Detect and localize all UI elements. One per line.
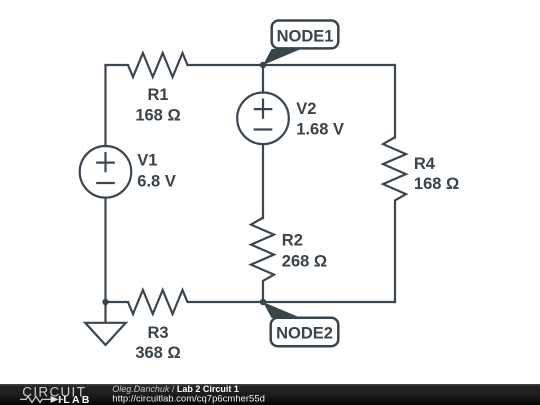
label V1 value [137,152,176,191]
svg-text:368 Ω: 368 Ω [135,344,180,362]
wire V1 bottom lead [104,198,106,302]
node NODE2 flag [263,302,338,346]
footer bar [0,384,540,405]
svg-text:V1: V1 [137,152,157,170]
resistor R2 [251,218,274,281]
svg-text:LAB: LAB [63,394,91,405]
svg-text:R3: R3 [147,324,168,342]
wire top-left horizontal lead [106,64,129,66]
node dot at ground junction [102,299,108,305]
label R3 value [135,324,180,362]
wire left vertical V1 top lead [104,65,106,146]
svg-text:NODE2: NODE2 [276,325,333,343]
svg-text:1.68 V: 1.68 V [296,121,344,139]
logo resistor squiggle [20,396,51,402]
label R4 value [414,155,459,193]
voltage source V2 [237,93,289,145]
wire node1 to V2 top [262,65,264,93]
wire top horizontal from R1 to right corner [188,64,396,66]
svg-text:R2: R2 [282,232,303,250]
svg-text:168 Ω: 168 Ω [135,107,180,125]
label R2 value [282,232,327,271]
svg-text:R4: R4 [414,155,436,173]
wire R4 bottom to bottom-right corner [394,201,396,302]
label V2 value [296,100,344,139]
wire R2 bottom to node2 [262,281,264,302]
wire V2 bottom to R2 top [262,144,264,218]
ground [85,302,126,345]
svg-text:R1: R1 [147,86,168,104]
label R1 value [135,86,180,125]
node dot N1 [260,62,266,68]
svg-text:268 Ω: 268 Ω [282,252,327,270]
voltage source V1 [80,146,132,198]
wire bottom horizontal from R3 to right corner [188,301,396,303]
svg-text:168 Ω: 168 Ω [414,175,459,193]
svg-text:6.8 V: 6.8 V [137,172,176,190]
logo diode [51,396,59,403]
resistor R4 [383,138,406,201]
svg-text:http://circuitlab.com/cq7p6cmh: http://circuitlab.com/cq7p6cmher55d [112,394,265,405]
wire bottom-left lead to R3 [106,301,129,303]
svg-text:NODE1: NODE1 [277,27,334,45]
resistor R3 [128,290,187,314]
node dot N2 [260,299,266,305]
svg-text:V2: V2 [296,100,316,118]
wire right vertical top lead to R4 [394,65,396,138]
svg-text:Oleg.Danchuk / Lab 2 Circuit 1: Oleg.Danchuk / Lab 2 Circuit 1 [112,384,239,394]
resistor R1 [128,53,187,77]
node NODE1 flag [263,21,338,66]
